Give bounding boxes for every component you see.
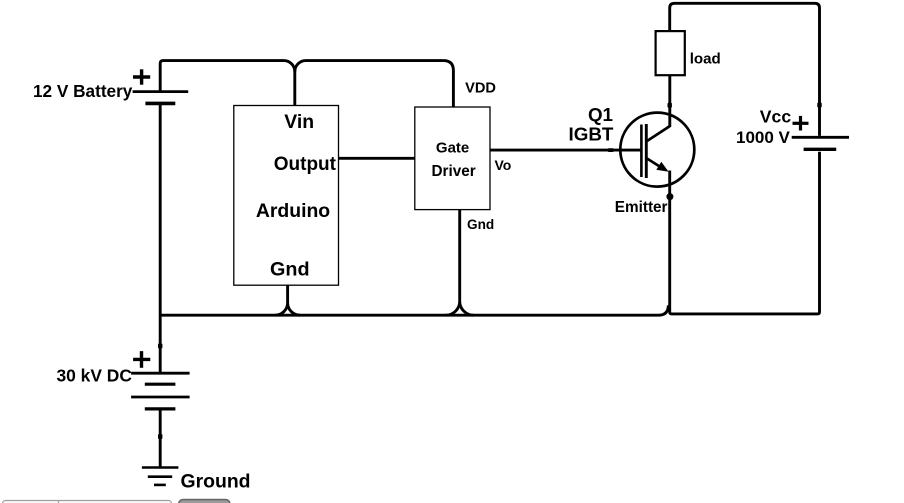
page tab divider xyxy=(58,501,60,503)
svg-text:Driver: Driver xyxy=(431,163,475,180)
svg-text:Gnd: Gnd xyxy=(467,217,494,232)
wire junction tick xyxy=(158,344,162,349)
battery Vcc short plate xyxy=(804,148,837,151)
plus sign of Vcc battery xyxy=(793,116,809,131)
battery 30kV long plate 2 xyxy=(131,396,190,399)
wire: left vertical from 12V battery down to 30kV battery xyxy=(159,103,162,373)
svg-text:load: load xyxy=(690,51,721,68)
Gate Driver box xyxy=(415,107,490,210)
page tab bar (bottom left, cut off) xyxy=(3,501,172,503)
svg-text:Vcc: Vcc xyxy=(760,107,792,127)
battery 30kV short plate 2 xyxy=(145,407,176,410)
battery B1 12V short plate xyxy=(145,102,175,106)
gray button (bottom left, cut off) xyxy=(179,500,230,503)
ground symbol bar 2 xyxy=(148,475,172,478)
battery 30kV long plate 1 xyxy=(131,372,190,375)
wire: 12V battery + up and right to Arduino Vin xyxy=(160,61,295,106)
wire: 30kV battery to ground xyxy=(159,409,162,468)
svg-text:Gnd: Gnd xyxy=(270,259,310,281)
wire: top loop from load to Vcc + xyxy=(670,3,820,136)
svg-text:Vin: Vin xyxy=(284,111,314,133)
wire: collector up to load xyxy=(668,76,671,128)
wire junction tick xyxy=(158,434,162,439)
svg-text:IGBT: IGBT xyxy=(569,124,614,145)
IGBT Q1 circle xyxy=(620,113,694,187)
svg-text:Ground: Ground xyxy=(181,471,251,493)
wire junction tick on Vo wire xyxy=(608,148,614,152)
Arduino box xyxy=(234,106,339,286)
IGBT collector diagonal xyxy=(647,126,670,141)
svg-text:Arduino: Arduino xyxy=(256,200,330,222)
wire: Arduino Output to Gate Driver input xyxy=(339,157,415,160)
svg-text:12 V Battery: 12 V Battery xyxy=(33,81,133,101)
svg-text:Vo: Vo xyxy=(495,157,512,173)
emitter junction dot xyxy=(666,193,673,200)
svg-text:VDD: VDD xyxy=(465,81,496,97)
svg-text:Gate: Gate xyxy=(436,139,469,156)
svg-text:1000 V: 1000 V xyxy=(736,128,791,147)
IGBT gate bar xyxy=(640,125,643,178)
IGBT emitter arrowhead xyxy=(656,162,668,172)
plus sign of 30kV battery xyxy=(133,351,150,368)
IGBT body bar xyxy=(645,124,648,178)
battery Vcc long plate xyxy=(792,136,849,139)
wire: Arduino Gnd down to bus with Y fillets xyxy=(275,285,300,315)
svg-text:Output: Output xyxy=(274,154,337,175)
wire: Gate Driver Gnd down to bus with Y fillets xyxy=(446,210,474,316)
wire: emitter down, right and up to Vcc battery - xyxy=(670,152,820,314)
wire junction tick on collector wire xyxy=(668,103,672,108)
IGBT emitter diagonal xyxy=(647,159,663,169)
battery 30kV short plate 1 xyxy=(145,383,176,386)
battery B1 12V long plate xyxy=(133,90,189,93)
wire junction tick on Vcc wire xyxy=(817,103,821,108)
svg-text:Emitter: Emitter xyxy=(615,199,668,216)
svg-text:30 kV DC: 30 kV DC xyxy=(57,366,133,386)
wire: Vo to IGBT gate xyxy=(490,149,640,152)
ground symbol bar 1 xyxy=(142,466,179,469)
ground symbol bar 3 xyxy=(154,484,166,487)
load resistor box xyxy=(656,31,685,75)
wire: Vin node to Gate Driver VDD top xyxy=(295,61,454,107)
wire: ground bus from left vertical to IGBT emitter xyxy=(160,305,668,315)
plus sign of 12V battery xyxy=(133,69,150,84)
svg-text:Q1: Q1 xyxy=(588,104,613,125)
